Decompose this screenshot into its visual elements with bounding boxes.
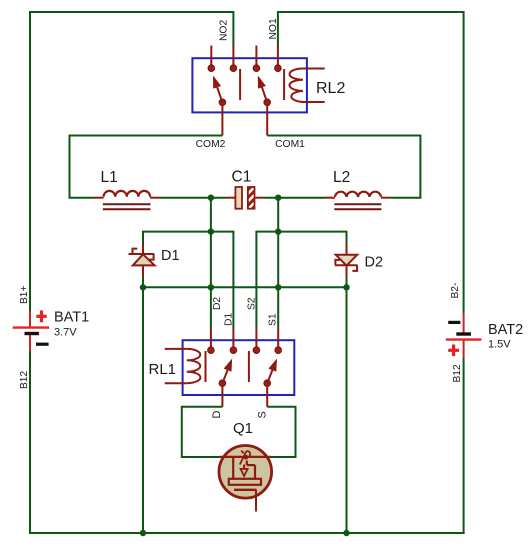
svg-text:D2: D2 — [212, 297, 223, 310]
battery BAT1 — [13, 286, 90, 389]
BAT1 positive plate — [13, 326, 49, 328]
RL2 coil lead bottom — [303, 101, 325, 103]
wire vertical C1-right down to RL1 pin S1 — [277, 198, 279, 328]
junction node at C1 left / L1 — [208, 195, 214, 201]
Q1 bottom bar — [234, 489, 257, 491]
RL2 switch arm COM1 — [264, 99, 271, 106]
BAT2 negative plate — [456, 332, 471, 335]
junction node wire C / D2 pin drop — [208, 284, 214, 290]
BAT2 positive plate — [446, 338, 482, 340]
RL2 switch arm COM2 — [219, 99, 226, 106]
RL2 contact bar right — [283, 69, 285, 100]
RL1 switch arm D — [219, 380, 226, 387]
RL2 contact bar mid — [239, 69, 241, 100]
RL2 COM1 stub — [266, 104, 268, 136]
svg-text:D1: D1 — [161, 248, 180, 264]
D1 cathode lead — [142, 244, 144, 254]
D2 triangle — [336, 255, 358, 266]
svg-text:S1: S1 — [268, 313, 279, 326]
L1 right lead — [150, 197, 161, 199]
BAT1 minus sign — [36, 343, 49, 346]
Q1 body circle — [219, 446, 272, 499]
wire vertical C1-left down to RL1 pin D2 — [210, 198, 212, 328]
svg-text:COM1: COM1 — [275, 139, 305, 150]
svg-text:B12: B12 — [19, 371, 30, 389]
wire C1 to L2 — [263, 197, 325, 199]
RL2 pin circles top — [208, 65, 215, 72]
svg-text:BAT2: BAT2 — [488, 322, 523, 338]
RL1 coil lead top — [165, 348, 187, 350]
RL1 pin stub D1 — [232, 328, 234, 348]
D1 anode lead — [142, 265, 144, 276]
junction node wire A / D2 pin drop — [208, 228, 214, 234]
C1 right plate (hatched) — [248, 187, 255, 209]
RL2 coil — [289, 69, 303, 103]
zener diode D1 — [129, 244, 180, 276]
L2 right lead — [381, 197, 390, 199]
Q1 gate lead — [255, 490, 257, 512]
RL1 pin stub S2 — [255, 328, 257, 348]
junction node D2 bottom — [343, 284, 349, 290]
RL2 pin stub NO2 — [232, 46, 234, 66]
junction node wire C / S1 pin drop — [275, 284, 281, 290]
BAT2 leads — [463, 313, 465, 334]
BAT1 negative plate — [25, 332, 39, 335]
BAT1 plus sign — [36, 315, 46, 318]
RL1 contact bar mid — [248, 351, 250, 382]
RL1 switch arm S — [264, 380, 271, 387]
svg-text:D1: D1 — [224, 313, 235, 326]
svg-text:L2: L2 — [333, 169, 350, 186]
relay RL1 — [149, 297, 295, 419]
L2 winding arcs — [335, 192, 381, 197]
svg-text:3.7V: 3.7V — [54, 327, 77, 339]
RL1 S stub bottom — [266, 385, 268, 407]
wire C: D1 bottom to D2 bottom — [143, 286, 347, 288]
D2 anode lead — [346, 244, 348, 255]
wire D1 lower lead to wire C — [142, 275, 144, 287]
svg-text:NO1: NO1 — [268, 18, 279, 39]
svg-text:B2-: B2- — [450, 283, 461, 299]
wire right rail upper — [463, 11, 465, 313]
D2 cathode lead — [346, 266, 348, 277]
svg-text:S2: S2 — [247, 297, 258, 310]
svg-text:BAT1: BAT1 — [54, 310, 89, 326]
wire L row left — [69, 197, 95, 199]
L2 core bars — [334, 203, 381, 205]
L1 left lead — [94, 197, 104, 199]
wire Q1 right loop (source) — [267, 407, 295, 457]
RL1 box — [183, 340, 295, 395]
BAT1 leads — [29, 311, 31, 328]
svg-text:L1: L1 — [101, 169, 118, 186]
RL1 coil — [187, 349, 201, 383]
C1 left plate — [235, 187, 242, 209]
junction node wire B / S1 pin drop — [275, 228, 281, 234]
BAT2 plus sign — [448, 349, 459, 352]
RL2 coil lead top — [303, 68, 325, 70]
svg-text:D2: D2 — [365, 255, 384, 271]
wire Q1 left loop (drain) — [182, 407, 223, 457]
wire vertical x=143 down to bottom rail — [142, 287, 144, 533]
inductor L2 — [325, 169, 390, 209]
D1 zener bar — [129, 253, 155, 255]
C1 left lead — [227, 197, 235, 199]
RL1 pin stub D2 — [210, 328, 212, 348]
L2 left lead — [325, 197, 335, 199]
Q1 actuator squiggle — [240, 451, 250, 465]
svg-text:D: D — [211, 411, 223, 419]
BAT2 minus sign — [448, 321, 460, 324]
RL1 D stub bottom — [221, 385, 223, 407]
svg-text:1.5V: 1.5V — [488, 339, 511, 351]
inductor L1 — [94, 169, 161, 209]
wire left rail upper — [29, 11, 31, 312]
wire COM1 to right side — [267, 136, 420, 198]
svg-text:Q1: Q1 — [233, 420, 253, 437]
wire top-right from NO1 to right rail — [278, 12, 464, 46]
wire B: RL1 pin S2 to D2 top — [256, 232, 346, 328]
C1 right lead — [255, 197, 264, 199]
wire COM2 to left rail — [70, 136, 223, 198]
wire L1 to C1 — [161, 197, 227, 199]
svg-text:B1+: B1+ — [19, 286, 30, 304]
RL1 pin circles top — [208, 347, 215, 354]
junction node bottom rail right — [343, 530, 349, 536]
svg-text:S: S — [257, 411, 269, 418]
svg-text:C1: C1 — [232, 169, 252, 186]
zener diode D2 — [335, 244, 383, 277]
RL2 pin stub (unconnected, mid) — [255, 46, 257, 66]
wire vertical x=346.5 down to bottom rail — [346, 287, 348, 533]
svg-text:COM2: COM2 — [196, 139, 226, 150]
svg-text:B12: B12 — [452, 364, 463, 382]
L1 core bars — [103, 203, 151, 205]
RL1 contact bar left — [205, 351, 207, 382]
MOSFET Q1 — [219, 420, 272, 512]
RL2 box — [192, 58, 307, 112]
junction node at C1 right / L2 — [275, 195, 281, 201]
relay RL2 — [192, 18, 345, 150]
svg-text:NO2: NO2 — [219, 20, 230, 41]
D2 zener bar — [335, 264, 358, 266]
RL2 pin stub (unconnected, left) — [210, 46, 212, 66]
RL1 pin stub S1 — [277, 328, 279, 348]
RL2 pin stub NO1 — [277, 46, 279, 66]
junction node D1 bottom — [140, 284, 146, 290]
svg-text:RL1: RL1 — [149, 361, 177, 378]
Q1 body-diode arrow — [241, 469, 248, 476]
wire top-left from left rail to NO2 — [30, 12, 233, 46]
Q1 substrate plate — [229, 479, 261, 485]
svg-text:RL2: RL2 — [316, 80, 345, 97]
wire right rail lower — [463, 358, 465, 534]
battery BAT2 — [446, 283, 523, 383]
L1 winding arcs — [104, 191, 151, 197]
wire L2 to right corner — [390, 197, 421, 199]
RL2 COM2 stub — [221, 104, 223, 136]
Q1 channel bar — [220, 456, 272, 458]
wire left rail lower — [29, 351, 31, 534]
junction node bottom rail left — [140, 530, 146, 536]
capacitor C1 — [227, 169, 263, 209]
wire D2 lower lead to wire C — [346, 276, 348, 287]
D1 triangle — [133, 254, 155, 265]
wire bottom rail — [29, 532, 465, 534]
wire A: D1 top to RL1 pin D1 — [143, 232, 233, 328]
Q1 internal verticals — [232, 457, 234, 479]
RL1 coil lead bottom — [165, 382, 187, 384]
